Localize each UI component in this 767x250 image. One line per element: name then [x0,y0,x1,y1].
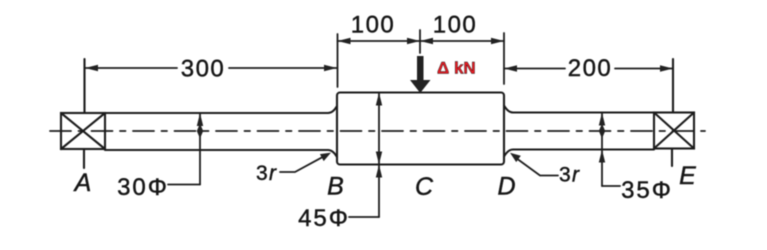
svg-text:300: 300 [181,56,226,83]
arrowhead 35dia bottom outer [599,150,605,163]
left shaft 30 dia outline [105,106,337,157]
svg-text:3r: 3r [559,164,580,187]
arrowhead 100L left [338,38,351,44]
extension line at D top [503,33,505,84]
arrowhead 100R right [491,38,504,44]
dimension line 300 [85,67,337,69]
svg-text:A: A [73,169,92,197]
arrowhead 100L right [407,38,420,44]
leader 3r left [280,155,326,172]
arrowhead 45dia top [376,93,382,106]
diamond 30dia center [197,124,203,139]
diamond 35dia center [599,124,605,139]
svg-text:B: B [327,173,344,201]
middle block 45 dia [337,93,504,165]
support A axis line [83,59,86,168]
arrowhead 300 left [85,65,98,71]
arrowhead 200 left [504,65,517,71]
svg-text:D: D [497,173,515,201]
right shaft 35 dia outline [504,106,654,157]
arrowhead 100R left [420,38,433,44]
centerline [50,130,705,132]
arrowhead 3r left leader [320,153,331,162]
arrowhead 300 right [324,65,337,71]
svg-text:Δ kN: Δ kN [437,59,476,78]
30 dia dimension line [168,113,200,185]
45 dia dimension line [349,93,379,218]
arrowhead 45dia bottom inner [376,152,382,165]
arrowhead 3r right leader [510,153,521,162]
svg-text:200: 200 [568,55,613,82]
35 dia dimension line [602,113,620,187]
arrowhead 200 right [660,65,673,71]
arrowhead 45dia bottom outer [376,165,382,178]
svg-text:45Φ: 45Φ [298,205,350,232]
support E axis line [672,59,673,166]
svg-text:E: E [679,162,696,190]
extension line at load center [419,30,421,53]
dimension line 100 right [420,40,504,42]
svg-text:100: 100 [351,12,396,39]
arrowhead 35dia top [599,113,605,126]
svg-text:30Φ: 30Φ [117,174,169,201]
svg-text:35Φ: 35Φ [621,177,673,204]
extension line at B top [337,34,339,87]
leader 3r right [514,157,558,176]
support A box [61,113,105,149]
arrowhead 30dia top [197,113,203,126]
dimension line 200 [504,68,673,70]
svg-text:C: C [415,173,434,201]
force arrow shaft [417,56,424,81]
svg-text:100: 100 [433,12,478,39]
force arrow head [410,80,431,93]
svg-text:3r: 3r [256,162,277,185]
support E box [654,113,694,149]
dimension line 100 left [338,40,421,42]
